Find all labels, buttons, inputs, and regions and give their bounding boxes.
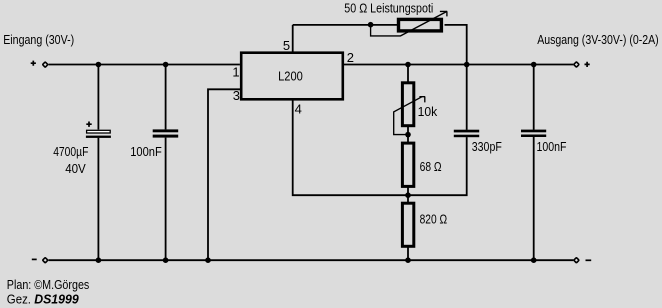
node junction pot 10k top: [405, 62, 411, 68]
svg-text:4700µF: 4700µF: [53, 144, 88, 159]
svg-text:Plan: ©M.Görges: Plan: ©M.Görges: [7, 277, 90, 292]
capacitor C2 lead top: [165, 65, 167, 130]
capacitor C4 lead top: [533, 65, 535, 130]
node junction pin3 bottom: [205, 257, 211, 263]
svg-text:L200: L200: [278, 69, 303, 84]
capacitor C2 lead bottom: [165, 138, 167, 261]
wire pin 4 riser and link: [293, 100, 408, 195]
node input minus terminal: [32, 258, 48, 263]
node output plus terminal: [574, 62, 590, 67]
resistor P2 wiper arrow: [371, 11, 448, 36]
capacitor C3 330pF plates: [454, 130, 479, 138]
resistor P2 50 Ohm poti body: [399, 19, 442, 31]
wire poti top left: [293, 24, 397, 26]
node junction poti wiper: [368, 22, 374, 28]
node junction C1 bottom: [96, 257, 102, 263]
resistor P1 10k lead top: [407, 65, 409, 83]
capacitor C4 lead bottom: [533, 137, 535, 260]
capacitor C1 lead bottom: [97, 138, 99, 260]
svg-text:2: 2: [347, 50, 354, 65]
svg-text:4: 4: [295, 102, 302, 117]
wire pin 5 riser: [292, 25, 294, 52]
svg-text:Eingang (30V-): Eingang (30V-): [3, 32, 74, 47]
svg-text:40V: 40V: [65, 161, 86, 176]
node output minus terminal: [574, 258, 591, 263]
svg-text:10k: 10k: [418, 104, 438, 119]
svg-text:330pF: 330pF: [472, 139, 502, 154]
node junction C2 bottom: [163, 257, 169, 263]
svg-text:820 Ω: 820 Ω: [420, 212, 448, 227]
node junction R1 R2 pin4: [405, 192, 411, 198]
svg-text:68 Ω: 68 Ω: [420, 159, 442, 174]
capacitor C1 4700uF polarity plus: [86, 122, 91, 127]
capacitor C1 lead top: [97, 65, 99, 130]
node junction 330pF top: [464, 62, 470, 68]
node junction C4 top: [531, 62, 537, 68]
capacitor C3 lead bottom: [408, 137, 467, 195]
node junction C1 top: [96, 62, 102, 68]
capacitor C4 100nF plates: [521, 130, 546, 137]
capacitor C2 100nF plates: [153, 129, 179, 137]
wire R1 to R2: [407, 186, 409, 204]
wire pot 10k to R1: [407, 127, 409, 144]
svg-text:Ausgang (3V-30V-) (0-2A): Ausgang (3V-30V-) (0-2A): [537, 32, 659, 47]
wire pin 2 rail: [343, 64, 574, 66]
resistor R2 820 Ohm body: [402, 203, 413, 246]
svg-text:Gez.: Gez.: [7, 291, 31, 306]
svg-text:100nF: 100nF: [537, 139, 567, 154]
node junction C4 bottom: [531, 257, 537, 263]
capacitor C1 4700uF plates: [86, 130, 111, 138]
op-amp U1 L200 regulator box: [241, 53, 343, 100]
node input plus terminal: [31, 61, 48, 68]
svg-text:5: 5: [283, 38, 290, 53]
node junction C2 top: [163, 62, 169, 68]
wire top rail input: [48, 64, 240, 66]
wire poti top right: [445, 25, 467, 65]
capacitor C3 lead top: [466, 65, 468, 130]
resistor P1 10k body: [402, 83, 413, 126]
svg-text:50 Ω Leistungspoti: 50 Ω Leistungspoti: [344, 1, 433, 16]
wire R2 to bottom rail: [407, 247, 409, 261]
svg-text:DS1999: DS1999: [34, 291, 79, 306]
resistor R1 68 Ohm body: [402, 143, 413, 186]
node junction wiper R1: [405, 132, 411, 138]
svg-text:1: 1: [232, 64, 239, 79]
wire bottom rail: [48, 259, 573, 261]
node junction R2 bottom: [405, 257, 411, 263]
svg-text:100nF: 100nF: [130, 144, 162, 159]
resistor P1 10k wiper arrow: [394, 97, 426, 135]
wire pin 3 to bottom rail: [208, 89, 241, 260]
